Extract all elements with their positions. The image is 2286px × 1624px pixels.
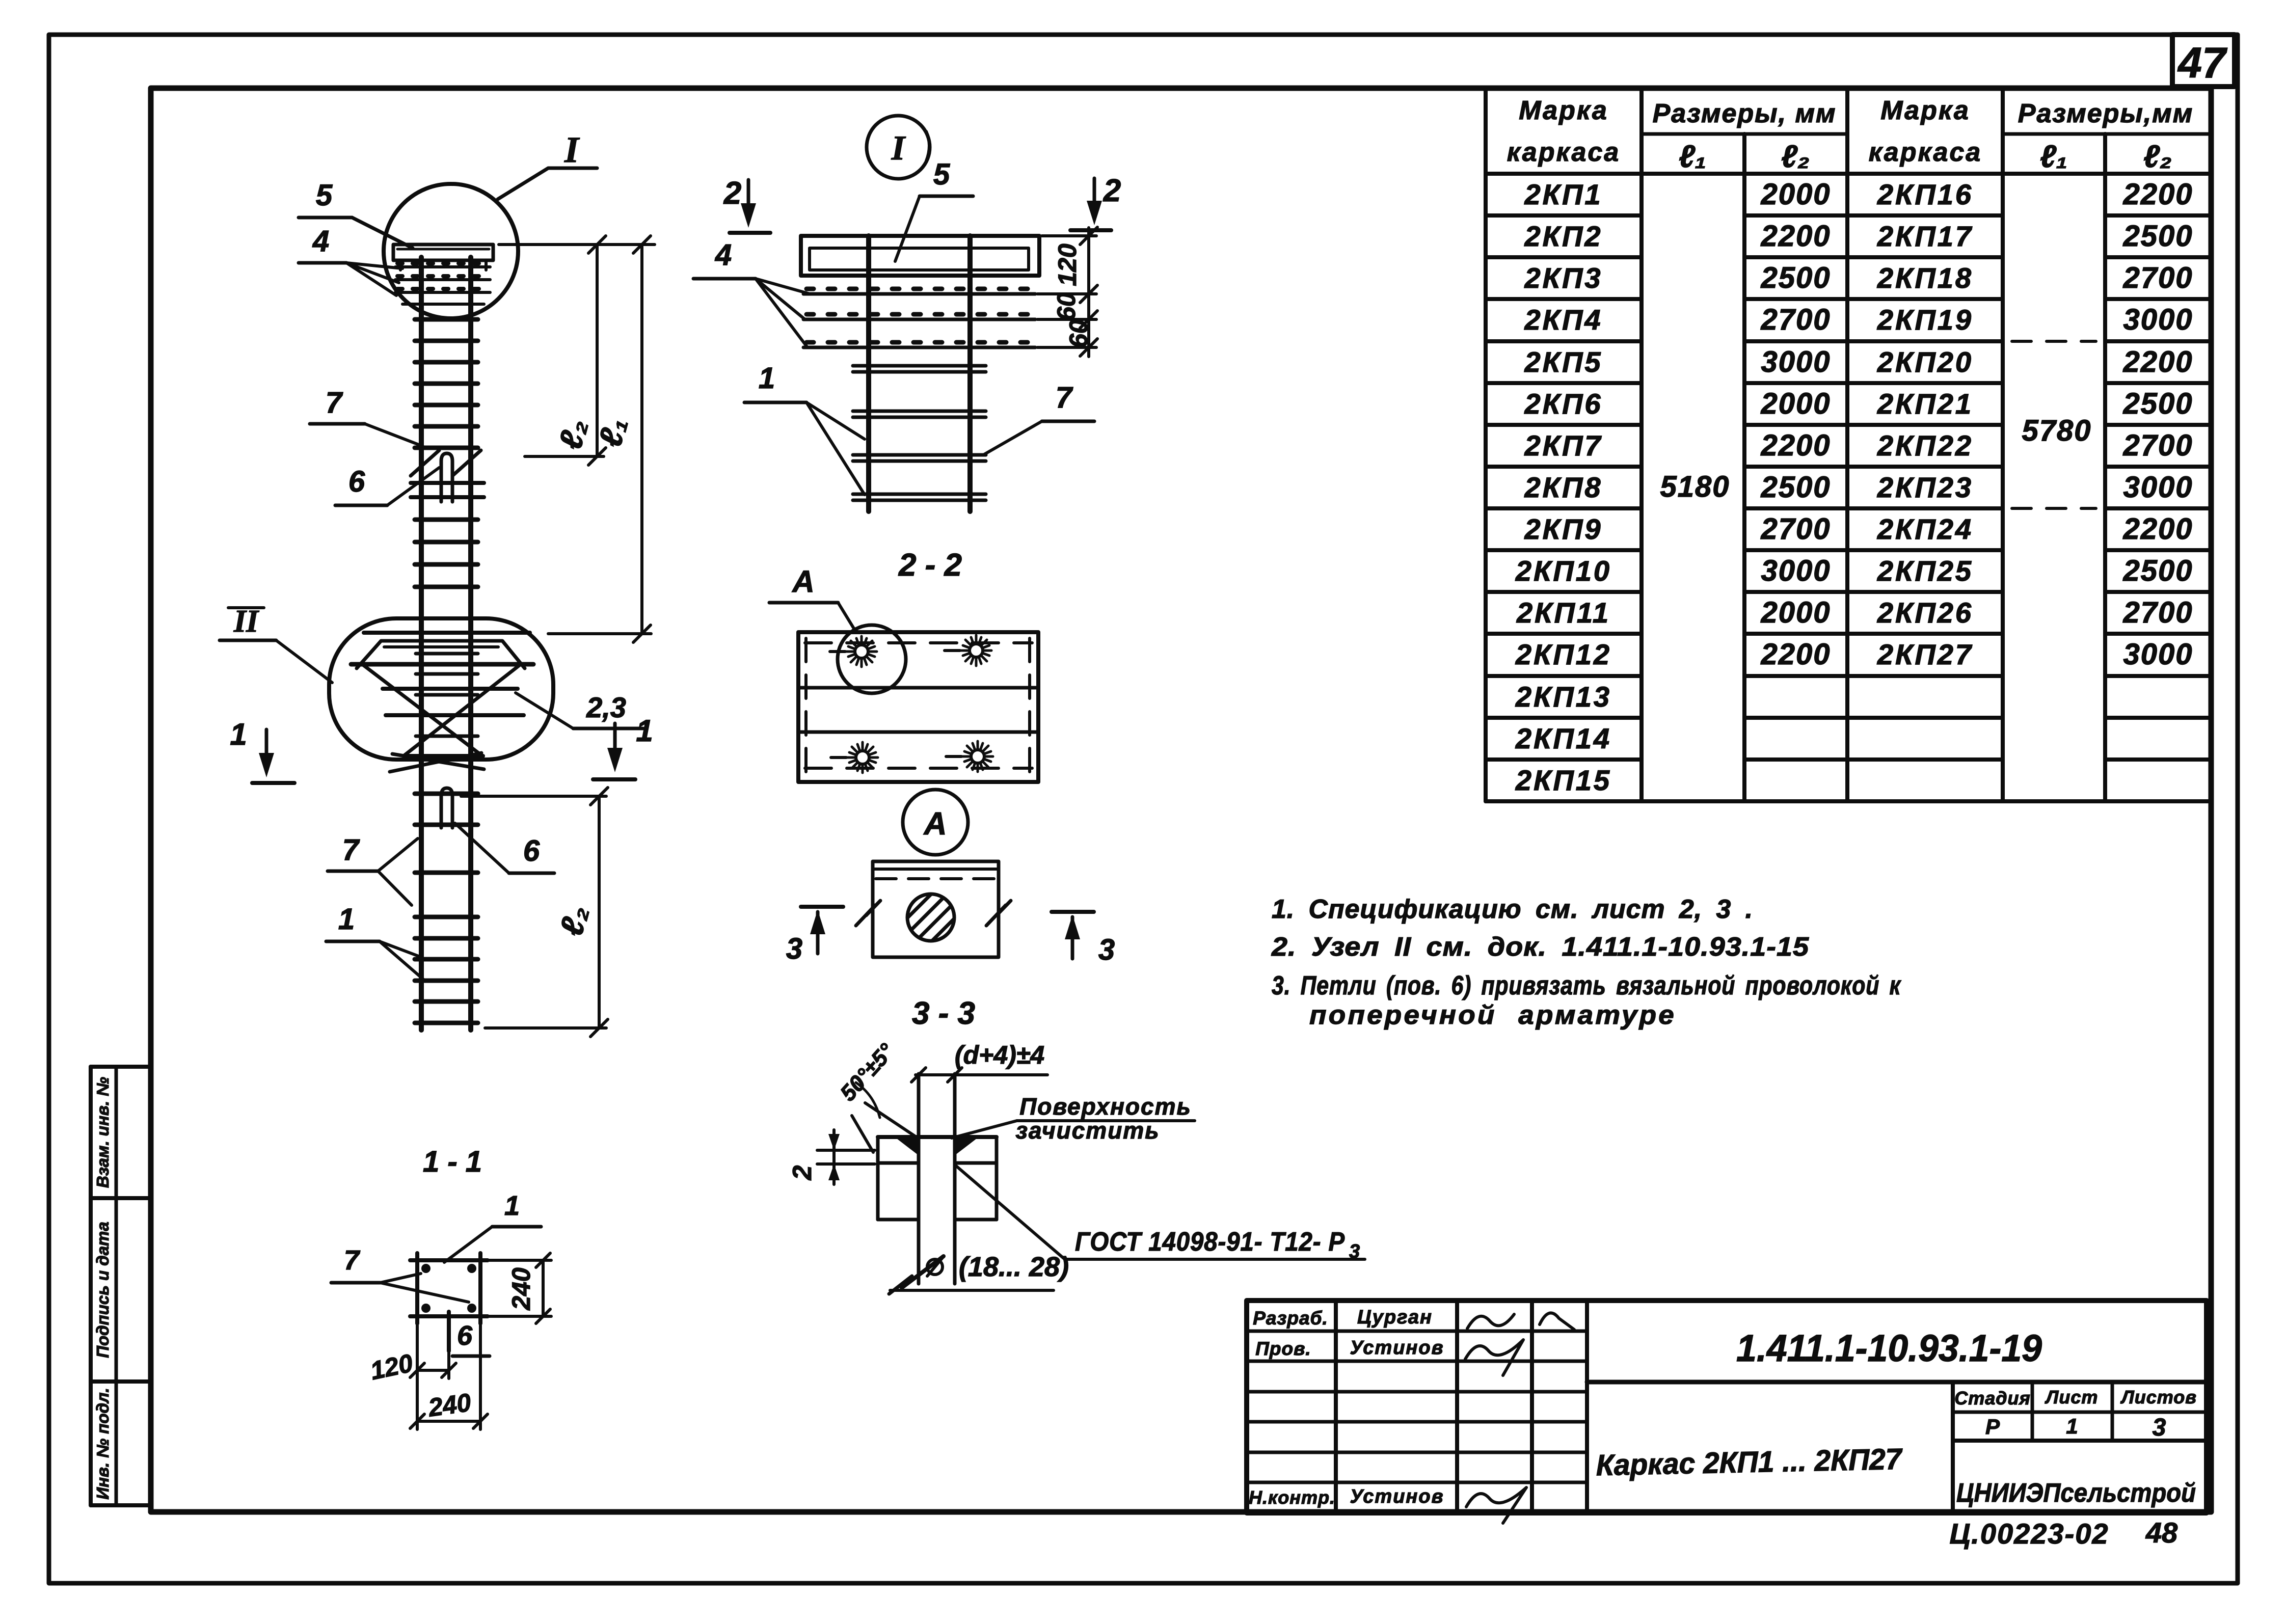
svg-text:2КП3: 2КП3 (1524, 262, 1603, 294)
detail oval II on elevation (329, 618, 553, 760)
inventory number Ц.00223-02 (1949, 1518, 2109, 1550)
svg-text:2КП25: 2КП25 (1877, 555, 1973, 587)
svg-text:7: 7 (344, 1245, 361, 1276)
svg-text:2КП1: 2КП1 (1524, 178, 1603, 210)
table header l2 (right) (2143, 139, 2172, 174)
svg-text:47: 47 (2177, 39, 2227, 87)
svg-text:I: I (564, 129, 580, 170)
title row Разраб. Цурган (1253, 1307, 1574, 1330)
label 7 (detail I) (983, 381, 1094, 455)
svg-text:2700: 2700 (2122, 429, 2193, 462)
title block frame (1247, 1301, 2207, 1513)
svg-text:240: 240 (426, 1388, 473, 1422)
plug weld symbol bottom-right (946, 741, 993, 772)
elevation splice plates (411, 483, 484, 497)
svg-text:3000: 3000 (1761, 345, 1831, 378)
dimension l2 upper (499, 236, 655, 465)
table row 2КП13 (1515, 681, 1611, 713)
title Каркас 2КП1 ... 2КП27 (1596, 1443, 1903, 1482)
inner frame (151, 88, 2211, 1512)
weld detail bar (919, 1074, 955, 1284)
svg-text:ℓ₁: ℓ₁ (2040, 139, 2067, 174)
value 1 (2066, 1414, 2078, 1438)
detail circle I on elevation (384, 184, 518, 318)
note Поверхность зачистить (952, 1093, 1195, 1144)
label 1 (section 1-1) (444, 1190, 541, 1262)
detail I plate item 5 (801, 236, 1039, 276)
svg-text:60: 60 (1052, 292, 1081, 321)
svg-text:Подпись и дата: Подпись и дата (93, 1222, 112, 1358)
document number (1736, 1327, 2042, 1369)
note 3 (1272, 971, 1901, 1030)
svg-text:2200: 2200 (2122, 512, 2193, 546)
note 2 (1271, 932, 1809, 962)
svg-text:7: 7 (342, 833, 360, 867)
label 5 (elevation) (299, 179, 413, 248)
svg-text:Устинов: Устинов (1350, 1486, 1444, 1507)
svg-text:5: 5 (316, 179, 333, 212)
svg-text:2700: 2700 (2122, 596, 2193, 629)
sheet number box (2172, 35, 2235, 87)
label I leader (498, 129, 597, 199)
svg-text:2КП21: 2КП21 (1877, 388, 1973, 420)
detail A bar section (hatched) (907, 894, 954, 941)
table row 2КП7 (1524, 429, 2193, 462)
svg-text:2 - 2: 2 - 2 (898, 548, 962, 583)
table row 2КП2 (1524, 220, 2193, 253)
svg-text:1: 1 (504, 1190, 520, 1221)
svg-text:Каркас 2КП1 ... 2КП27: Каркас 2КП1 ... 2КП27 (1596, 1443, 1903, 1482)
svg-text:A: A (791, 564, 814, 599)
caption 2-2 (898, 548, 962, 583)
svg-text:2КП22: 2КП22 (1877, 429, 1973, 462)
svg-text:3 - 3: 3 - 3 (912, 996, 975, 1031)
dimension l2 lower (461, 788, 608, 1037)
label 1 (detail I) (744, 362, 865, 495)
svg-text:1.411.1-10.93.1-19: 1.411.1-10.93.1-19 (1736, 1327, 2042, 1369)
svg-text:Поверхность: Поверхность (1019, 1093, 1192, 1120)
table row 2КП14 (1515, 722, 1611, 754)
svg-text:2КП7: 2КП7 (1524, 429, 1603, 462)
organization ЦНИИЭПсельстрой (1956, 1478, 2196, 1508)
svg-text:ГОСТ 14098-91- Т12- Р: ГОСТ 14098-91- Т12- Р (1075, 1227, 1345, 1257)
detail circle A (838, 625, 906, 693)
table row 2КП5 (1524, 345, 2193, 378)
svg-text:2КП23: 2КП23 (1877, 471, 1973, 503)
label 4 (elevation) (299, 225, 402, 295)
svg-text:1. Спецификацию см. лист: 1. Спецификацию см. лист 2, 3 . (1272, 895, 1753, 924)
strip label Инв. № подл. (93, 1388, 112, 1499)
table header Марка каркаса (left) (1507, 96, 1620, 167)
section 1-1 tie square (410, 1253, 488, 1323)
svg-text:240: 240 (507, 1267, 535, 1311)
svg-text:2000: 2000 (1760, 387, 1831, 420)
svg-text:2КП8: 2КП8 (1524, 471, 1603, 503)
label 1 (elevation lower) (326, 903, 425, 981)
svg-text:5: 5 (933, 158, 950, 191)
svg-text:2200: 2200 (2122, 345, 2193, 378)
table row 2КП8 (1524, 471, 2193, 504)
svg-text:Инв. № подл.: Инв. № подл. (93, 1388, 112, 1499)
value 3 (2153, 1414, 2166, 1441)
svg-text:6: 6 (523, 834, 540, 868)
svg-text:2: 2 (1103, 173, 1121, 208)
section 2-2 plate outline (798, 632, 1038, 782)
elevation longitudinal bars (421, 257, 471, 1030)
table row 2КП4 (1524, 303, 2193, 336)
svg-text:Размеры, мм: Размеры, мм (1653, 99, 1837, 128)
elevation upper rungs (415, 319, 478, 448)
svg-text:Н.контр.: Н.контр. (1249, 1487, 1335, 1508)
table value l1=5780 (2022, 414, 2091, 447)
svg-text:2500: 2500 (1760, 471, 1831, 504)
svg-text:2КП18: 2КП18 (1877, 262, 1973, 294)
svg-text:2КП5: 2КП5 (1524, 346, 1603, 378)
detail A caption circle (903, 790, 968, 855)
svg-text:3000: 3000 (2123, 638, 2193, 671)
svg-text:2700: 2700 (2122, 261, 2193, 294)
svg-text:поперечной арматуре: поперечной арматуре (1309, 1000, 1676, 1030)
svg-text:60: 60 (1064, 319, 1093, 348)
svg-text:2КП6: 2КП6 (1524, 388, 1603, 420)
svg-text:ℓ₁: ℓ₁ (1679, 139, 1706, 174)
svg-text:4: 4 (715, 238, 732, 272)
svg-text:2500: 2500 (2122, 220, 2193, 253)
page 48 (2145, 1517, 2178, 1549)
label 6 (section 1-1) (452, 1320, 490, 1356)
table row 2КП1 (1524, 178, 2193, 211)
svg-text:2КП14: 2КП14 (1515, 722, 1611, 754)
svg-text:2КП26: 2КП26 (1877, 597, 1973, 629)
svg-text:Лист: Лист (2045, 1387, 2099, 1408)
section 1-1 loop bar item 6 (447, 1312, 451, 1351)
strip label Подпись и дата (93, 1222, 112, 1358)
svg-text:2000: 2000 (1760, 178, 1831, 211)
svg-text:1 - 1: 1 - 1 (423, 1145, 482, 1178)
svg-text:2КП16: 2КП16 (1877, 178, 1973, 210)
title row Н.контр. Устинов (1249, 1486, 1526, 1523)
svg-text:ЦНИИЭПсельстрой: ЦНИИЭПсельстрой (1956, 1478, 2196, 1508)
label A leader (769, 564, 855, 630)
svg-text:2КП10: 2КП10 (1515, 555, 1611, 587)
svg-text:6: 6 (457, 1320, 473, 1351)
svg-text:1: 1 (338, 903, 355, 936)
weld detail plate section (878, 1137, 997, 1220)
detail A plate (873, 861, 999, 957)
svg-text:2200: 2200 (1760, 638, 1831, 671)
svg-text:2КП20: 2КП20 (1877, 346, 1973, 378)
table row 2КП6 (1524, 387, 2193, 420)
svg-text:Цурган: Цурган (1357, 1307, 1433, 1328)
svg-text:2500: 2500 (1760, 261, 1831, 294)
dimension 120 (bottom) (368, 1323, 456, 1429)
svg-text:1: 1 (636, 714, 653, 748)
plug weld symbol top-left (830, 636, 877, 667)
label 6 (elevation upper) (335, 465, 439, 505)
header Листов (2120, 1387, 2197, 1408)
table row 2КП10 (1515, 554, 2193, 587)
elevation lower rungs (415, 794, 478, 1023)
svg-text:2200: 2200 (1760, 429, 1831, 462)
svg-text:II: II (233, 604, 259, 639)
svg-text:120: 120 (1053, 243, 1082, 286)
dimension l1 (548, 236, 651, 642)
elevation lifting loop item 6 (lower) (441, 788, 452, 828)
svg-text:1: 1 (230, 717, 247, 751)
svg-text:2КП11: 2КП11 (1516, 597, 1610, 629)
bar break slash (889, 1256, 944, 1294)
svg-text:2КП12: 2КП12 (1515, 638, 1611, 670)
svg-text:2КП15: 2КП15 (1515, 764, 1611, 796)
label 5 (detail I) (895, 158, 973, 261)
svg-text:5780: 5780 (2022, 414, 2091, 447)
weld mark right (986, 901, 1011, 926)
svg-text:Листов: Листов (2120, 1387, 2197, 1408)
svg-text:каркаса: каркаса (1507, 138, 1620, 167)
label 7 (section 1-1) (331, 1245, 469, 1302)
label 6 (elevation lower) (455, 823, 554, 873)
detail I rungs item 7 (853, 366, 986, 500)
svg-text:Стадия: Стадия (1954, 1388, 2030, 1409)
svg-text:I: I (891, 128, 906, 167)
plug weld symbol bottom-left (831, 742, 878, 773)
svg-text:2. Узел II см. док. 1.411: 2. Узел II см. док. 1.411.1-10.93.1-15 (1271, 932, 1809, 962)
detail I caption circle (867, 116, 930, 179)
header Лист (2045, 1387, 2099, 1408)
header Стадия (1954, 1388, 2030, 1409)
section mark 2 (right) (1070, 173, 1121, 230)
dimension 240 (bottom) (410, 1323, 488, 1429)
svg-text:7: 7 (1056, 381, 1073, 414)
chamfer 50 degrees (836, 1039, 917, 1152)
svg-text:2700: 2700 (1760, 512, 1831, 546)
svg-text:6: 6 (348, 465, 365, 498)
svg-text:Пров.: Пров. (1255, 1338, 1311, 1359)
table header l1 (right) (2040, 139, 2067, 174)
section mark 2 (left) (723, 176, 770, 233)
caption 1-1 (423, 1145, 482, 1178)
dimension (d+4)±4 (911, 1041, 1047, 1082)
svg-text:Взам. инв. №: Взам. инв. № (93, 1077, 112, 1188)
label diameter (18...28) (890, 1252, 1069, 1290)
table header l1 (left) (1679, 139, 1706, 174)
value Р (1985, 1415, 2000, 1439)
weld mark left (856, 901, 880, 926)
svg-text:2КП9: 2КП9 (1524, 513, 1603, 545)
svg-text:2500: 2500 (2122, 387, 2193, 420)
svg-text:2КП24: 2КП24 (1877, 513, 1973, 545)
table row 2КП11 (1516, 596, 2193, 629)
table value l1=5180 (1660, 470, 1730, 503)
table header Размеры, мм (left) (1653, 99, 1837, 128)
elevation lifting loop item 6 (upper) (441, 453, 452, 502)
dimension 240 (right) (487, 1253, 551, 1323)
svg-text:2КП4: 2КП4 (1524, 304, 1603, 336)
svg-text:2200: 2200 (1760, 220, 1831, 253)
svg-text:48: 48 (2145, 1517, 2178, 1549)
label 7 (elevation lower) (328, 833, 418, 905)
label 2,3 leader (516, 691, 643, 728)
svg-text:4: 4 (312, 225, 329, 258)
table row 2КП15 (1515, 764, 1611, 796)
svg-text:2КП27: 2КП27 (1877, 638, 1973, 670)
svg-text:3. Петли (пов. 6) привязать: 3. Петли (пов. 6) привязать вязальной пр… (1272, 971, 1901, 1000)
label II leader (220, 604, 332, 683)
svg-text:Ц.00223-02: Ц.00223-02 (1949, 1518, 2109, 1550)
svg-text:Марка: Марка (1519, 96, 1608, 125)
svg-text:1: 1 (759, 362, 775, 395)
caption 3-3 (912, 996, 975, 1031)
svg-text:2КП2: 2КП2 (1524, 220, 1603, 252)
detail I dimensions 120 60 60 (1037, 227, 1097, 357)
title row Пров. Устинов (1255, 1337, 1523, 1375)
label 4 (detail I) (693, 238, 810, 347)
table header l2 (left) (1781, 139, 1810, 174)
svg-text:2КП19: 2КП19 (1877, 304, 1973, 336)
table row 2КП12 (1515, 638, 2193, 671)
svg-text:каркаса: каркаса (1869, 138, 1982, 167)
svg-text:ℓ₂: ℓ₂ (2143, 139, 2172, 174)
dimension 2 (plate gap) (788, 1130, 875, 1184)
elevation embedded plate item 5 (393, 245, 493, 270)
note ГОСТ 14098-91-Т12-Р3 (956, 1166, 1365, 1262)
elevation middle rungs (415, 520, 478, 587)
section mark 1 (left) (230, 717, 294, 783)
svg-text:3: 3 (1098, 933, 1115, 966)
svg-text:2: 2 (723, 176, 741, 211)
svg-text:2: 2 (788, 1165, 817, 1180)
section mark 3 (right) (1052, 912, 1115, 966)
section mark 3 (left) (786, 907, 843, 965)
elevation ribbed mesh bars item 4 (395, 263, 490, 304)
svg-text:A: A (923, 806, 947, 842)
strip label Взам. инв. № (93, 1077, 112, 1188)
svg-text:Марка: Марка (1880, 96, 1970, 125)
svg-text:2500: 2500 (2122, 554, 2193, 587)
table row 2КП9 (1524, 512, 2193, 546)
svg-text:(18... 28): (18... 28) (959, 1252, 1069, 1282)
svg-text:1: 1 (2066, 1414, 2078, 1438)
svg-text:Устинов: Устинов (1350, 1337, 1444, 1359)
svg-text:7: 7 (326, 386, 343, 419)
svg-text:3: 3 (2153, 1414, 2166, 1441)
oval interior: splice bars and bracing (351, 633, 533, 772)
svg-text:3: 3 (786, 932, 802, 965)
svg-text:3000: 3000 (1761, 554, 1831, 587)
note 1 (1272, 895, 1753, 924)
svg-text:2200: 2200 (2122, 178, 2193, 211)
svg-text:Разраб.: Разраб. (1253, 1308, 1328, 1329)
svg-text:5180: 5180 (1660, 470, 1730, 503)
svg-text:3000: 3000 (2123, 471, 2193, 504)
table header Размеры, мм (right) (2018, 99, 2193, 128)
label 7 (elevation upper) (310, 386, 423, 446)
detail I vertical bars (869, 236, 970, 511)
section 1-1 corner bars (421, 1264, 476, 1313)
svg-text:ℓ₂: ℓ₂ (1781, 139, 1810, 174)
svg-text:2000: 2000 (1760, 596, 1831, 629)
svg-text:Р: Р (1985, 1415, 2000, 1439)
table header Марка каркаса (right) (1869, 96, 1982, 167)
svg-text:(d+4)±4: (d+4)±4 (955, 1041, 1044, 1069)
detail I ribbed bars item 4 (803, 289, 1035, 347)
table grid (1486, 89, 2211, 801)
left margin strip (91, 1067, 151, 1505)
svg-text:2700: 2700 (1760, 303, 1831, 336)
svg-text:2,3: 2,3 (586, 691, 626, 723)
section mark 1 (right) (593, 714, 653, 779)
svg-text:Размеры,мм: Размеры,мм (2018, 99, 2193, 128)
table row 2КП3 (1524, 261, 2193, 294)
svg-text:3000: 3000 (2123, 303, 2193, 336)
svg-text:2КП17: 2КП17 (1877, 220, 1973, 252)
svg-text:2КП13: 2КП13 (1515, 681, 1611, 713)
elevation break slashes (411, 450, 481, 476)
plug weld symbol top-right (945, 635, 991, 666)
weld fillets (897, 1139, 919, 1155)
